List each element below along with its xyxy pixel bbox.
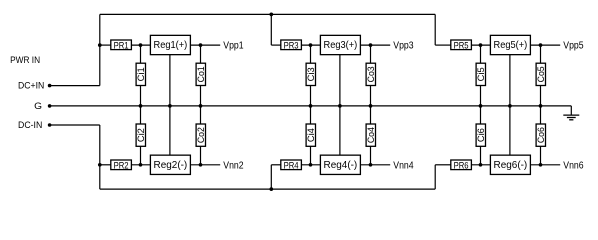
svg-text:Vnn4: Vnn4 — [393, 160, 414, 171]
wire PR4 to Reg4 — [301, 164, 320, 166]
capacitor Ci4 — [306, 124, 316, 146]
wire riser from PR4 row — [270, 165, 272, 189]
wire Ci6 branch — [480, 106, 482, 165]
svg-text:Vnn2: Vnn2 — [223, 160, 244, 171]
junction Ci4 bottom — [309, 163, 313, 167]
wire Ci4 branch — [310, 106, 312, 165]
wire Reg3 output stub — [360, 44, 390, 46]
wire DC+IN feed — [50, 85, 100, 87]
junction Reg pins on G bus (section 2) — [338, 104, 342, 108]
regulator Reg4(-) — [320, 155, 360, 174]
junction Ci6 bottom — [479, 163, 483, 167]
capacitor Ci6 — [476, 124, 486, 146]
svg-text:Ci2: Ci2 — [136, 128, 146, 142]
wire to PR1 — [100, 44, 111, 46]
svg-text:DC+IN: DC+IN — [18, 81, 44, 92]
svg-text:Reg5(+): Reg5(+) — [494, 39, 528, 51]
svg-text:PR6: PR6 — [454, 160, 469, 171]
svg-text:Vpp3: Vpp3 — [393, 41, 414, 52]
capacitor Co2 — [196, 124, 206, 146]
wire input positive riser — [99, 14, 101, 85]
svg-text:Reg2(-): Reg2(-) — [154, 159, 188, 171]
junction Co2 bottom — [199, 163, 203, 167]
wire Reg4 output stub — [360, 164, 390, 166]
capacitor Co6 — [536, 124, 546, 146]
wire Ci1 branch — [140, 45, 142, 106]
junction bottom bus / riser2 — [269, 187, 273, 191]
svg-text:Reg6(-): Reg6(-) — [494, 159, 528, 171]
protector PR5 — [451, 40, 472, 51]
svg-text:PR3: PR3 — [284, 40, 299, 51]
capacitor Co5 — [536, 63, 546, 85]
svg-text:Ci6: Ci6 — [476, 128, 486, 142]
wire Co4 branch — [370, 106, 372, 165]
wire Ci5 branch — [480, 45, 482, 106]
regulator Reg2(-) — [150, 155, 190, 174]
svg-text:G: G — [34, 101, 42, 112]
wire Co3 branch — [370, 45, 372, 106]
wire input negative dropper — [99, 125, 101, 189]
svg-text:PR1: PR1 — [114, 40, 129, 51]
junction Co4 bottom — [369, 163, 373, 167]
svg-text:Reg3(+): Reg3(+) — [324, 39, 358, 51]
protector PR6 — [451, 160, 472, 171]
regulator Reg1(+) — [150, 35, 190, 54]
terminal DC+IN — [48, 84, 52, 88]
wire DC-IN feed — [50, 124, 100, 126]
junction Co5 top — [539, 43, 543, 47]
protector PR1 — [111, 40, 132, 51]
wire Co2 branch — [200, 106, 202, 165]
svg-text:Co5: Co5 — [536, 66, 546, 82]
wire PR3 to Reg3 — [301, 44, 320, 46]
junction Ci34 on G bus — [309, 104, 313, 108]
capacitor Ci1 — [136, 63, 146, 85]
wire to PR6 — [435, 164, 451, 166]
junction input riser / PR1 row — [98, 43, 102, 47]
junction Ci1 top — [139, 43, 143, 47]
svg-text:Ci3: Ci3 — [306, 67, 316, 81]
svg-text:Co6: Co6 — [536, 127, 546, 143]
svg-text:Reg1(+): Reg1(+) — [154, 39, 188, 51]
svg-text:Co3: Co3 — [366, 66, 376, 82]
wire Ci2 branch — [140, 106, 142, 165]
wire Reg2 output stub — [190, 164, 220, 166]
svg-text:Co1: Co1 — [196, 66, 206, 82]
svg-text:Vpp1: Vpp1 — [223, 41, 244, 52]
wire riser from PR6 row — [434, 165, 436, 189]
svg-text:Vnn6: Vnn6 — [563, 160, 584, 171]
protector PR4 — [281, 160, 302, 171]
svg-text:Vpp5: Vpp5 — [563, 41, 584, 52]
wire Reg2 ground pin — [169, 106, 171, 155]
capacitor Ci3 — [306, 63, 316, 85]
wire drop to PR3 row — [270, 14, 272, 45]
terminal DC-IN — [48, 123, 52, 127]
wire Co1 branch — [200, 45, 202, 106]
junction Co56 on G bus — [539, 104, 543, 108]
junction Ci3 top — [309, 43, 313, 47]
junction Co3 top — [369, 43, 373, 47]
wire PR5 to Reg5 — [471, 44, 490, 46]
svg-text:DC-IN: DC-IN — [18, 120, 42, 131]
wire Reg1 output stub — [190, 44, 220, 46]
capacitor Ci5 — [476, 63, 486, 85]
wire Reg5 ground pin — [509, 55, 511, 106]
wire Co5 branch — [540, 45, 542, 106]
regulator Reg6(-) — [490, 155, 530, 174]
regulator Reg3(+) — [320, 35, 360, 54]
svg-text:PR5: PR5 — [454, 40, 469, 51]
wire drop to PR5 row — [434, 14, 436, 45]
svg-text:PWR IN: PWR IN — [10, 55, 40, 66]
junction Co12 on G bus — [199, 104, 203, 108]
junction Ci5 top — [479, 43, 483, 47]
junction top bus / drop2 — [269, 13, 273, 17]
wire Reg6 output stub — [530, 164, 560, 166]
svg-text:Ci1: Ci1 — [136, 67, 146, 81]
wire Co6 branch — [540, 106, 542, 165]
protector PR3 — [281, 40, 302, 51]
junction Co1 top — [199, 43, 203, 47]
capacitor Ci2 — [136, 124, 146, 146]
wire PR2 to Reg2 — [131, 164, 150, 166]
svg-text:PR2: PR2 — [114, 160, 129, 171]
junction Ci12 on G bus — [139, 104, 143, 108]
svg-text:Co2: Co2 — [196, 127, 206, 143]
junction Ci2 bottom — [139, 163, 143, 167]
junction Reg pins on G bus (section 1) — [168, 104, 172, 108]
svg-text:Ci4: Ci4 — [306, 128, 316, 142]
terminal G — [48, 104, 52, 108]
junction Ci56 on G bus — [479, 104, 483, 108]
svg-text:Co4: Co4 — [366, 127, 376, 143]
wire Reg1 ground pin — [169, 55, 171, 106]
svg-text:Ci5: Ci5 — [476, 67, 486, 81]
wire PR1 to Reg1 — [131, 44, 150, 46]
wire Reg3 ground pin — [339, 55, 341, 106]
protector PR2 — [111, 160, 132, 171]
junction Co34 on G bus — [369, 104, 373, 108]
junction Co6 bottom — [539, 163, 543, 167]
regulator Reg5(+) — [490, 35, 530, 54]
junction input dropper / PR2 row — [98, 163, 102, 167]
wire Reg5 output stub — [530, 44, 560, 46]
wire PR6 to Reg6 — [471, 164, 490, 166]
wire to PR3 — [271, 44, 281, 46]
wire to PR4 — [271, 164, 281, 166]
wire Ci3 branch — [310, 45, 312, 106]
wire G bus — [50, 105, 572, 107]
wire bottom negative bus — [100, 188, 435, 190]
junction Reg pins on G bus (section 3) — [508, 104, 512, 108]
wire to PR5 — [435, 44, 451, 46]
ground — [563, 106, 579, 120]
svg-text:PR4: PR4 — [284, 160, 299, 171]
capacitor Co1 — [196, 63, 206, 85]
wire to PR2 — [100, 164, 111, 166]
capacitor Co4 — [366, 124, 376, 146]
svg-text:Reg4(-): Reg4(-) — [324, 159, 358, 171]
wire Reg4 ground pin — [339, 106, 341, 155]
wire Reg6 ground pin — [509, 106, 511, 155]
wire top positive bus — [100, 13, 435, 15]
capacitor Co3 — [366, 63, 376, 85]
